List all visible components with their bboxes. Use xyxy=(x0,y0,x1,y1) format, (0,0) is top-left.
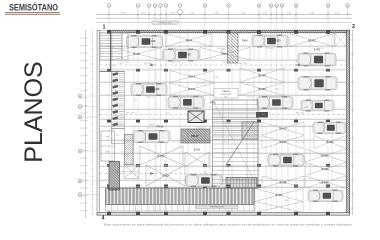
svg-text:B-206: B-206 xyxy=(322,181,329,185)
svg-text:2.50 x 5.00: 2.50 x 5.00 xyxy=(318,97,326,99)
svg-text:12: 12 xyxy=(276,5,278,7)
svg-text:13: 13 xyxy=(281,5,283,7)
svg-text:B-103: B-103 xyxy=(280,127,287,131)
svg-text:PM-3: PM-3 xyxy=(189,75,196,79)
title underline dark xyxy=(5,12,60,14)
svg-text:B-102: B-102 xyxy=(280,140,287,144)
top wall left opening xyxy=(97,29,108,31)
svg-text:1.25: 1.25 xyxy=(318,63,321,65)
beam dark bar xyxy=(256,112,268,118)
hatched stall PM-07 xyxy=(181,129,210,143)
strip lower band xyxy=(106,205,255,212)
svg-text:2.40: 2.40 xyxy=(80,188,83,190)
ramp dark base xyxy=(226,178,257,189)
svg-text:11: 11 xyxy=(270,5,272,7)
vehicle ramp treads xyxy=(213,100,259,188)
svg-text:7: 7 xyxy=(180,5,181,7)
svg-text:PM-6: PM-6 xyxy=(242,40,248,43)
structural columns xyxy=(107,30,330,215)
svg-text:SEMISÓTANO: SEMISÓTANO xyxy=(9,2,58,13)
car row6 right xyxy=(257,96,293,109)
svg-text:2.50 x 5.00: 2.50 x 5.00 xyxy=(146,128,154,130)
door symbol center xyxy=(221,49,225,53)
svg-text:B-035: B-035 xyxy=(275,89,280,91)
vertical label PLANOS xyxy=(20,61,48,162)
svg-text:14: 14 xyxy=(295,5,297,7)
grid lines vertical xyxy=(109,15,328,213)
svg-text:B-034: B-034 xyxy=(259,74,266,78)
car row11 mid xyxy=(186,174,222,187)
svg-text:B-028: B-028 xyxy=(149,39,156,43)
moto stalls strip xyxy=(112,72,125,129)
svg-text:2.50 x 5.00: 2.50 x 5.00 xyxy=(196,84,204,86)
car B-030 row1 right xyxy=(252,35,288,48)
svg-text:2.50 x 5.00: 2.50 x 5.00 xyxy=(121,48,129,50)
svg-text:B-027: B-027 xyxy=(185,53,192,57)
svg-text:Este documento es base referen: Este documento es base referencial del p… xyxy=(104,222,353,226)
svg-text:B-203: B-203 xyxy=(327,140,334,144)
svg-text:2.50 x 5.00: 2.50 x 5.00 xyxy=(172,142,180,144)
svg-text:NPT -2.80: NPT -2.80 xyxy=(144,63,152,65)
car B-036 row5 xyxy=(131,83,167,96)
svg-text:CTO.: CTO. xyxy=(116,135,121,137)
svg-text:3: 3 xyxy=(149,5,150,7)
svg-text:2.40: 2.40 xyxy=(80,90,83,92)
svg-text:NPT -2.80: NPT -2.80 xyxy=(116,172,124,174)
svg-text:DEP.: DEP. xyxy=(106,152,110,154)
svg-text:MOTOS: MOTOS xyxy=(109,65,116,67)
top dimension lines xyxy=(96,13,352,20)
svg-text:DEP.: DEP. xyxy=(106,137,110,139)
top wall xyxy=(108,30,350,33)
left wall xyxy=(97,30,100,215)
svg-text:PM-02: PM-02 xyxy=(150,125,155,127)
svg-text:NPT -2.80: NPT -2.80 xyxy=(296,113,304,115)
svg-text:B-207: B-207 xyxy=(285,200,290,202)
svg-text:PROYECCION: PROYECCION xyxy=(159,23,172,25)
car PM-5 row6 xyxy=(168,96,204,109)
svg-text:2.40: 2.40 xyxy=(80,83,83,85)
svg-text:B-003: B-003 xyxy=(309,39,316,43)
svg-text:NPT -2.80: NPT -2.80 xyxy=(239,63,247,65)
dim line 3 xyxy=(96,22,352,24)
right wall xyxy=(347,30,350,215)
svg-text:B-106: B-106 xyxy=(158,154,165,158)
svg-text:2.40: 2.40 xyxy=(80,135,83,137)
svg-text:8: 8 xyxy=(205,5,206,7)
svg-text:B-104: B-104 xyxy=(163,174,170,178)
stall band lines xyxy=(100,46,347,188)
svg-text:6: 6 xyxy=(166,5,167,7)
svg-text:B-205: B-205 xyxy=(322,154,329,158)
hatched wall strip mid-left xyxy=(125,135,134,165)
svg-text:6.00: 6.00 xyxy=(244,125,247,127)
room below moto strip xyxy=(112,129,125,144)
svg-text:VEHICULAR: VEHICULAR xyxy=(221,93,232,96)
svg-text:B-036: B-036 xyxy=(153,87,160,91)
right dimension line xyxy=(352,30,354,215)
interior wall vertical xyxy=(110,33,112,72)
svg-text:10: 10 xyxy=(258,5,260,7)
ramp corner hatch xyxy=(242,122,258,139)
svg-text:2.40: 2.40 xyxy=(80,143,83,145)
svg-text:2.50 x 5.00: 2.50 x 5.00 xyxy=(266,48,274,50)
svg-text:2.50 x 5.00: 2.50 x 5.00 xyxy=(146,97,154,99)
svg-text:2.40: 2.40 xyxy=(80,113,83,115)
svg-text:15%: 15% xyxy=(224,97,228,99)
svg-text:2.40: 2.40 xyxy=(80,210,83,212)
svg-text:2.40: 2.40 xyxy=(80,53,83,55)
stall dimension texts xyxy=(121,48,326,184)
svg-text:2.50 x 5.00: 2.50 x 5.00 xyxy=(121,61,129,63)
svg-text:2.40: 2.40 xyxy=(80,60,83,62)
svg-text:B-009: B-009 xyxy=(304,107,309,109)
ramp label box xyxy=(214,89,238,99)
svg-text:4: 4 xyxy=(102,216,105,222)
svg-text:B-107: B-107 xyxy=(189,87,196,91)
title underline brown xyxy=(5,13,60,15)
car B-004 row3 right xyxy=(298,76,337,91)
svg-text:2.40: 2.40 xyxy=(80,203,83,205)
left dimension line with ticks xyxy=(80,30,94,218)
svg-text:B-208: B-208 xyxy=(280,181,287,185)
svg-text:2.40: 2.40 xyxy=(80,75,83,77)
svg-text:PM-07: PM-07 xyxy=(191,135,199,138)
stair top-left xyxy=(100,33,128,60)
svg-text:PROYECCION: PROYECCION xyxy=(210,207,224,209)
proyeccion label top xyxy=(152,21,178,24)
svg-text:B-030: B-030 xyxy=(274,39,281,43)
svg-text:16: 16 xyxy=(347,5,349,7)
svg-text:2.40: 2.40 xyxy=(80,173,83,175)
svg-text:2.50: 2.50 xyxy=(133,100,136,102)
svg-text:2.40: 2.40 xyxy=(214,77,217,79)
car B-027 row2 xyxy=(163,49,199,62)
svg-text:B-100: B-100 xyxy=(194,149,201,152)
proyeccion label bottom xyxy=(196,205,238,208)
svg-text:2.40: 2.40 xyxy=(310,65,313,67)
svg-text:1: 1 xyxy=(103,25,106,31)
svg-text:6.00: 6.00 xyxy=(203,172,206,174)
svg-text:2.40: 2.40 xyxy=(80,68,83,70)
bottom wall xyxy=(97,213,350,216)
car B-001 row2 right xyxy=(298,53,336,67)
grid diamond marker xyxy=(177,9,183,15)
svg-text:PM-02: PM-02 xyxy=(156,126,164,129)
left grid bubbles xyxy=(78,94,97,196)
svg-text:PLANOS: PLANOS xyxy=(20,61,48,162)
svg-text:12%: 12% xyxy=(224,186,228,188)
svg-text:1: 1 xyxy=(109,5,110,7)
svg-text:2.50 x 5.00: 2.50 x 5.00 xyxy=(222,142,230,144)
elevator shaft xyxy=(188,111,204,123)
retaining wall hatched strip xyxy=(106,188,255,205)
hatched pier center-top xyxy=(228,33,239,63)
stall dividers xyxy=(112,33,332,212)
car right col bottom xyxy=(308,190,343,203)
car bottom-left xyxy=(133,130,170,143)
svg-text:2.50 x 5.00: 2.50 x 5.00 xyxy=(296,142,304,144)
car row6 far right xyxy=(301,100,334,112)
svg-text:2: 2 xyxy=(352,24,355,30)
car row10 mid xyxy=(268,154,304,167)
svg-text:1.25: 1.25 xyxy=(118,63,121,65)
svg-text:2: 2 xyxy=(138,5,139,7)
dark block stairwell xyxy=(109,162,120,191)
empty stalls with X xyxy=(112,34,346,213)
rooms bottom-left xyxy=(101,131,115,161)
svg-text:RAMPA: RAMPA xyxy=(222,90,230,93)
svg-text:NPT -2.80: NPT -2.80 xyxy=(126,113,134,115)
svg-text:15: 15 xyxy=(327,5,329,7)
svg-text:B-001: B-001 xyxy=(314,49,321,52)
svg-text:PM-4: PM-4 xyxy=(186,39,193,43)
svg-text:6.00: 6.00 xyxy=(166,113,169,115)
svg-text:2.40: 2.40 xyxy=(80,38,83,40)
svg-text:B-035: B-035 xyxy=(259,87,266,91)
svg-text:2.50 x 5.00: 2.50 x 5.00 xyxy=(246,97,254,99)
micro annotations xyxy=(109,63,322,202)
svg-text:B-207: B-207 xyxy=(276,193,283,197)
car right col top xyxy=(313,122,346,135)
svg-text:2.40: 2.40 xyxy=(80,165,83,167)
svg-text:2.40: 2.40 xyxy=(80,45,83,47)
svg-text:2.40: 2.40 xyxy=(80,128,83,130)
svg-text:4: 4 xyxy=(155,5,156,7)
svg-text:5: 5 xyxy=(160,5,161,7)
aisle centerlines xyxy=(100,65,347,174)
svg-text:B-037: B-037 xyxy=(134,52,141,56)
svg-text:2.40: 2.40 xyxy=(80,158,83,160)
svg-text:1.00: 1.00 xyxy=(138,186,141,188)
svg-text:2.40: 2.40 xyxy=(80,120,83,122)
svg-text:9: 9 xyxy=(228,5,229,7)
svg-text:B-204: B-204 xyxy=(322,167,329,171)
svg-text:2.50 x 5.00: 2.50 x 5.00 xyxy=(172,61,180,63)
stair diagonals bottom-left xyxy=(124,165,139,178)
car B-028 row1 xyxy=(127,35,163,48)
column grid bubbles top xyxy=(107,4,349,15)
svg-text:2.50 x 5.00: 2.50 x 5.00 xyxy=(222,155,230,157)
